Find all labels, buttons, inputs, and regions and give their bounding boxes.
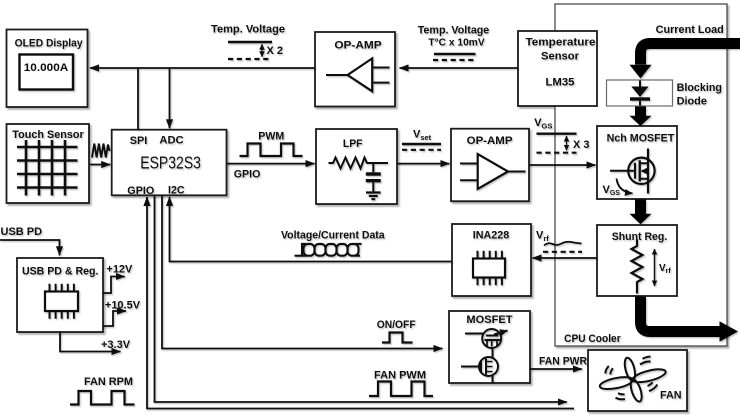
touch sensor grid icon — [17, 140, 78, 196]
svg-text:Nch MOSFET: Nch MOSFET — [607, 133, 675, 145]
svg-text:SPI: SPI — [130, 135, 148, 147]
svg-text:GPIO: GPIO — [127, 185, 154, 197]
Vgs x3 level symbol — [537, 134, 577, 153]
svg-text:FAN: FAN — [660, 389, 682, 401]
ESP32S3 box U1 — [112, 130, 227, 196]
wire +3.3V output — [60, 332, 120, 352]
OLED Display box — [7, 30, 88, 108]
wire SPI riser from ESP32S3 — [137, 68, 139, 130]
wire OP-AMP U3 to Nch MOSFET gate — [529, 164, 595, 166]
INA228 box — [452, 224, 531, 296]
wire ON/OFF GPIO to MOSFET box — [162, 195, 442, 348]
svg-text:Diode: Diode — [677, 95, 707, 107]
wire Shunt Reg Vrf to INA228 — [533, 257, 597, 259]
CPU Cooler enclosure box — [555, 4, 727, 346]
svg-text:OP-AMP: OP-AMP — [334, 40, 381, 52]
svg-text:+12V: +12V — [106, 263, 133, 275]
svg-text:Sensor: Sensor — [541, 51, 580, 63]
OP-AMP box U3 (mid) — [451, 129, 529, 202]
touch signal squiggle — [92, 144, 110, 158]
I2C data bus symbol — [295, 244, 362, 256]
svg-text:USB PD & Reg.: USB PD & Reg. — [22, 266, 99, 278]
ON/OFF pulse waveform — [382, 333, 413, 343]
wire PWM GPIO ESP32S3 to LPF — [227, 163, 315, 165]
wire +10.5V output — [103, 311, 126, 326]
svg-text:Temp. Voltage: Temp. Voltage — [211, 24, 285, 36]
wire Temperature Sensor to OP-AMP U2 — [400, 67, 518, 69]
Temperature Sensor LM35 box — [518, 31, 597, 106]
wire Touch Sensor to ESP32S3 — [90, 164, 110, 166]
transistor Q3 P-MOSFET symbol (fan switch high side) — [465, 329, 508, 348]
OLED readout inner box — [20, 55, 74, 90]
MOSFET box Q3/Q4 — [449, 311, 530, 383]
op-amp U3 triangle (points right) — [460, 154, 526, 189]
Nch MOSFET box Q1 — [597, 126, 677, 199]
resistor shunt symbol — [632, 240, 643, 294]
Temp voltage level symbol (sensor side) — [433, 54, 476, 60]
USB PD & Reg. box — [17, 258, 103, 332]
svg-text:LPF: LPF — [343, 138, 363, 150]
wire LPF to OP-AMP U3 — [397, 163, 449, 165]
svg-text:T°C x 10mV: T°C x 10mV — [428, 38, 485, 49]
Shunt Reg. box — [597, 225, 677, 296]
INA228 IC icon — [473, 251, 505, 285]
svg-text:GPIO: GPIO — [234, 169, 261, 181]
fan blades icon — [599, 357, 667, 403]
svg-text:OLED Display: OLED Display — [15, 38, 84, 50]
svg-text:INA228: INA228 — [473, 230, 510, 242]
PWM square waveform — [240, 144, 303, 157]
svg-text:OP-AMP: OP-AMP — [467, 135, 513, 147]
svg-text:FAN RPM: FAN RPM — [84, 376, 133, 388]
svg-text:10.000A: 10.000A — [24, 62, 69, 74]
FAN RPM waveform — [70, 391, 135, 405]
svg-text:USB PD: USB PD — [1, 226, 43, 238]
svg-text:FAN PWM: FAN PWM — [374, 370, 426, 382]
transistor Q4 N-MOSFET symbol (fan switch low side) — [461, 348, 498, 384]
Vrf ripple symbol — [543, 242, 582, 252]
svg-text:Touch Sensor: Touch Sensor — [12, 129, 84, 141]
FAN box — [588, 350, 687, 411]
svg-text:Voltage/Current Data: Voltage/Current Data — [281, 230, 386, 242]
Temp voltage x2 level symbol — [228, 42, 272, 59]
svg-text:X 3: X 3 — [573, 139, 590, 151]
svg-text:MOSFET: MOSFET — [466, 314, 512, 326]
wire FAN PWM output — [155, 195, 567, 402]
wire USB PD input — [0, 240, 60, 255]
svg-text:X 2: X 2 — [267, 45, 284, 57]
thick arrow diode to Nch MOSFET — [630, 107, 652, 127]
LPF RC filter icon — [329, 158, 389, 200]
Touch Sensor box — [7, 124, 90, 203]
svg-text:Temperature: Temperature — [526, 37, 596, 49]
svg-text:+3.3V: +3.3V — [101, 339, 131, 351]
svg-text:ESP32S3: ESP32S3 — [140, 153, 201, 173]
thick arrow Nch MOSFET to Shunt Reg — [630, 200, 652, 225]
thick current load feed from right — [641, 44, 740, 65]
thick current return to right edge — [641, 297, 739, 342]
svg-text:Temp. Voltage: Temp. Voltage — [418, 25, 490, 37]
transistor Q1 Nch MOSFET symbol — [610, 149, 655, 194]
diode D1 symbol — [630, 81, 650, 106]
svg-text:Blocking: Blocking — [677, 82, 722, 94]
svg-text:+10.5V: +10.5V — [105, 299, 141, 311]
OP-AMP box U2 (top) — [315, 32, 395, 107]
Vgs curved arrow in Q1 box — [617, 179, 633, 194]
wire +12V output — [103, 277, 125, 294]
svg-text:Shunt Reg.: Shunt Reg. — [612, 231, 668, 243]
svg-text:ON/OFF: ON/OFF — [377, 319, 416, 331]
USB PD regulator IC icon — [45, 284, 78, 319]
wire ADC riser into ESP32S3 — [169, 68, 171, 128]
LPF box — [316, 129, 397, 204]
wire FAN RPM input to ESP32S3 — [147, 197, 574, 409]
Vset level symbol — [402, 144, 441, 150]
svg-text:ADC: ADC — [159, 135, 183, 147]
wire INA228 I2C data to ESP32S3 — [170, 197, 453, 262]
Vrf measurement arrow in Shunt box — [654, 249, 656, 286]
svg-text:FAN PWR: FAN PWR — [539, 356, 587, 368]
Blocking Diode box D1 — [607, 80, 673, 106]
svg-text:Current Load: Current Load — [656, 24, 724, 36]
wire FAN PWR to FAN — [530, 368, 582, 370]
svg-text:LM35: LM35 — [546, 77, 575, 89]
svg-text:I2C: I2C — [168, 185, 185, 197]
wire SPI bus to OLED / ADC feed — [90, 67, 315, 69]
fan motion arcs — [605, 357, 657, 400]
op-amp U2 triangle (points left) — [326, 58, 390, 91]
svg-text:PWM: PWM — [258, 131, 284, 143]
svg-text:CPU Cooler: CPU Cooler — [564, 333, 621, 345]
FAN PWM waveform — [369, 382, 433, 397]
